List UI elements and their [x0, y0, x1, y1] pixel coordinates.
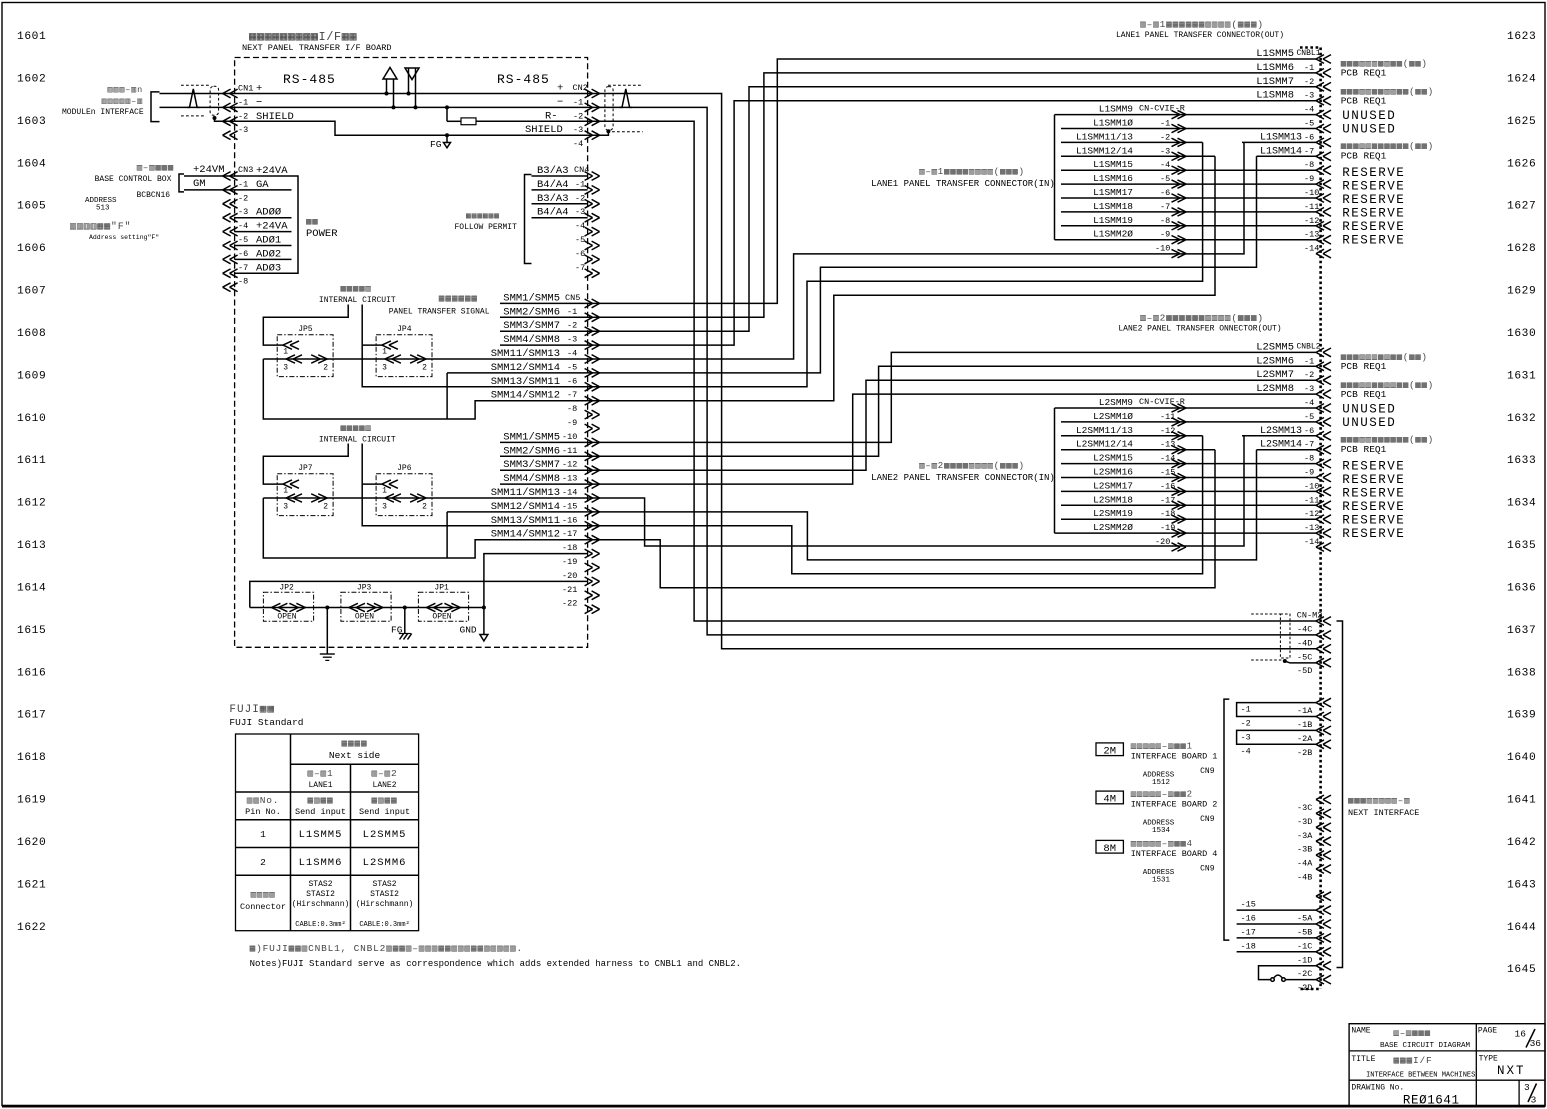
svg-text:RS-485: RS-485 — [497, 72, 550, 87]
svg-text:▦▦▦I/F: ▦▦▦I/F — [1394, 1055, 1433, 1066]
svg-text:-9: -9 — [1304, 468, 1314, 478]
svg-text:SMM3/SMM7: SMM3/SMM7 — [503, 320, 560, 332]
svg-text:2: 2 — [260, 857, 266, 868]
svg-text:SMM12/SMM14: SMM12/SMM14 — [491, 501, 560, 513]
svg-text:LANE2 PANEL TRANSFER ONNECTOR(: LANE2 PANEL TRANSFER ONNECTOR(OUT) — [1118, 325, 1281, 334]
svg-text:▦▦: ▦▦ — [306, 217, 318, 227]
svg-text:Connector: Connector — [240, 902, 286, 912]
svg-text:▦▦▦▦▦▦: ▦▦▦▦▦▦ — [439, 293, 478, 304]
svg-text:FUJI▦▦: FUJI▦▦ — [229, 704, 275, 716]
svg-text:▥▥▥▥▥–▥: ▥▥▥▥▥–▥ — [102, 97, 143, 107]
node after JP3 — [403, 606, 407, 610]
svg-text:L1SMM1Ø: L1SMM1Ø — [1093, 118, 1133, 129]
svg-text:-8: -8 — [238, 277, 248, 287]
wire CN2- to CN-M2 — [588, 107, 1316, 635]
svg-text:▦▦▦▥▥▥▥▥–▥: ▦▦▦▥▥▥▥▥–▥ — [1348, 796, 1410, 806]
pulse symbol — [620, 89, 633, 108]
svg-text:1614: 1614 — [17, 582, 46, 594]
svg-text:-2: -2 — [1304, 77, 1314, 87]
svg-text:PCB REQ1: PCB REQ1 — [1341, 444, 1387, 455]
svg-text:-7: -7 — [567, 390, 577, 400]
svg-text:LANE1 PANEL TRANSFER CONNECTOR: LANE1 PANEL TRANSFER CONNECTOR(OUT) — [1116, 31, 1284, 40]
svg-text:2: 2 — [422, 503, 427, 512]
svg-text:L1SMM14: L1SMM14 — [1260, 146, 1302, 157]
svg-text:-19: -19 — [1160, 523, 1175, 533]
svg-text:-18: -18 — [1241, 941, 1256, 951]
svg-text:-14: -14 — [1304, 244, 1319, 254]
svg-text:▥–▥2▦▦▦▦▥▥▥▥(▦▦▦): ▥–▥2▦▦▦▦▥▥▥▥(▦▦▦) — [919, 461, 1025, 471]
svg-text:1626: 1626 — [1507, 158, 1536, 170]
svg-text:CN3: CN3 — [238, 165, 253, 175]
svg-text:RESERVE: RESERVE — [1342, 527, 1405, 541]
svg-text:+: + — [557, 83, 563, 95]
svg-text:L2SMM19: L2SMM19 — [1093, 508, 1133, 519]
connector CNBL2 pins — [1316, 348, 1324, 357]
svg-text:L1SMM18: L1SMM18 — [1093, 201, 1133, 212]
svg-text:1602: 1602 — [17, 73, 46, 85]
connector CN3 — [223, 172, 231, 181]
svg-text:-2A: -2A — [1297, 734, 1313, 744]
svg-text:-2: -2 — [1304, 370, 1314, 380]
wire — [1061, 128, 1316, 130]
svg-text:▥▥▥▥▥–▥▦▦1: ▥▥▥▥▥–▥▦▦1 — [1131, 741, 1193, 751]
svg-text:Send input: Send input — [295, 807, 346, 817]
svg-text:-16: -16 — [1160, 481, 1175, 491]
svg-text:RESERVE: RESERVE — [1342, 486, 1405, 500]
svg-text:NEXT INTERFACE: NEXT INTERFACE — [1348, 808, 1419, 818]
svg-text:CN9: CN9 — [1200, 815, 1215, 824]
machine boundary dotted line — [1319, 48, 1322, 990]
svg-text:L1SMM5: L1SMM5 — [299, 829, 343, 841]
svg-text:RESERVE: RESERVE — [1342, 473, 1405, 487]
svg-text:▥–▥1▦▦▦▦▥▥▥▥(▦▦▦): ▥–▥1▦▦▦▦▥▥▥▥(▦▦▦) — [919, 167, 1025, 177]
wire CN2+ to CN-M2 — [588, 94, 1316, 649]
svg-text:1617: 1617 — [17, 710, 46, 722]
svg-text:8M: 8M — [1103, 843, 1116, 855]
crossover routing rows14-17 to lane2 (U-under) — [588, 436, 1244, 546]
svg-text:CN2: CN2 — [573, 83, 588, 93]
svg-text:INTERFACE BOARD 4: INTERFACE BOARD 4 — [1131, 849, 1218, 859]
svg-text:-1: -1 — [238, 179, 248, 189]
svg-text:ADØØ: ADØØ — [256, 207, 281, 219]
svg-text:1: 1 — [260, 829, 266, 840]
svg-text:-2: -2 — [1160, 132, 1170, 142]
wire row5 SMM12/SMM14 — [447, 372, 587, 374]
svg-text:-8: -8 — [1304, 454, 1314, 464]
svg-text:-8: -8 — [1304, 160, 1314, 170]
svg-text:SMM12/SMM14: SMM12/SMM14 — [491, 362, 560, 374]
svg-text:-5B: -5B — [1297, 928, 1312, 938]
svg-text:1607: 1607 — [17, 286, 46, 298]
svg-text:SMM14/SMM12: SMM14/SMM12 — [491, 529, 560, 541]
svg-text:-6: -6 — [238, 249, 248, 259]
wire + rail — [235, 93, 588, 95]
riser to CN5 -20 — [250, 581, 588, 607]
svg-text:1637: 1637 — [1507, 625, 1536, 637]
svg-text:▦▥▦▦: ▦▥▦▦ — [372, 795, 398, 806]
svg-text:L2SMM8: L2SMM8 — [1256, 383, 1294, 395]
svg-text:PCB REQ1: PCB REQ1 — [1341, 96, 1387, 107]
svg-text:2M: 2M — [1103, 745, 1116, 757]
svg-text:SMM11/SMM13: SMM11/SMM13 — [491, 487, 560, 499]
svg-text:SMM13/SMM11: SMM13/SMM11 — [491, 376, 560, 388]
CN5 stub wires rows 10-13 — [500, 441, 588, 443]
svg-text:1: 1 — [283, 487, 288, 496]
wire internal to JP4 pin1 / row6 — [362, 305, 587, 387]
svg-text:GM: GM — [193, 178, 206, 190]
svg-text:L2SMM9: L2SMM9 — [1099, 397, 1134, 408]
wire — [1061, 421, 1316, 423]
svg-text:INTERFACE BOARD 2: INTERFACE BOARD 2 — [1131, 800, 1218, 810]
svg-text:-5: -5 — [575, 235, 585, 245]
svg-text:-10: -10 — [1304, 188, 1319, 198]
svg-text:-9: -9 — [567, 418, 577, 428]
svg-text:L2SMM11/13: L2SMM11/13 — [1076, 425, 1133, 436]
svg-text:1642: 1642 — [1507, 837, 1536, 849]
crossover wires L2SMM13 L2SMM14 — [1242, 435, 1316, 437]
svg-text:-14: -14 — [1160, 454, 1175, 464]
svg-text:1605: 1605 — [17, 201, 46, 213]
svg-text:L1SMM11/13: L1SMM11/13 — [1076, 131, 1133, 142]
terminating resistor R — [445, 105, 449, 109]
svg-text:-2: -2 — [573, 111, 583, 121]
svg-text:ADØ1: ADØ1 — [256, 235, 281, 247]
svg-text:LANE2: LANE2 — [373, 781, 397, 790]
svg-text:RESERVE: RESERVE — [1342, 513, 1405, 527]
svg-text:-8: -8 — [1160, 216, 1170, 226]
svg-text:1620: 1620 — [17, 837, 46, 849]
svg-text:-5: -5 — [1160, 174, 1170, 184]
svg-text:CNBL2: CNBL2 — [1297, 342, 1321, 351]
svg-text:+24VM: +24VM — [193, 164, 225, 176]
svg-text:FOLLOW PERMIT: FOLLOW PERMIT — [455, 223, 518, 232]
svg-text:Next side: Next side — [329, 750, 381, 761]
svg-text:3: 3 — [1531, 1095, 1537, 1106]
svg-text:TITLE: TITLE — [1351, 1055, 1375, 1064]
svg-text:RESERVE: RESERVE — [1342, 459, 1405, 473]
shorting loop -1/-2 — [1237, 703, 1316, 717]
svg-text:TYPE: TYPE — [1479, 1055, 1498, 1064]
svg-text:-14: -14 — [1304, 537, 1319, 547]
svg-text:NEXT PANEL TRANSFER I/F BOARD: NEXT PANEL TRANSFER I/F BOARD — [242, 43, 392, 53]
svg-text:-4: -4 — [1160, 160, 1170, 170]
connector CN2 — [592, 89, 600, 98]
svg-text:NAME: NAME — [1351, 1027, 1370, 1036]
svg-text:-13: -13 — [562, 474, 577, 484]
svg-text:CN-CVIF-R: CN-CVIF-R — [1139, 104, 1185, 114]
wire — [1061, 477, 1316, 479]
svg-text:RS-485: RS-485 — [283, 72, 336, 87]
wire — [1061, 183, 1316, 185]
CN9 stub bracket — [1224, 699, 1229, 940]
svg-text:-3: -3 — [1241, 732, 1251, 742]
svg-text:-11: -11 — [1304, 495, 1319, 505]
svg-text:-2: -2 — [567, 321, 577, 331]
svg-text:-2C: -2C — [1297, 969, 1312, 979]
svg-text:-5: -5 — [567, 362, 577, 372]
bus CN5 rows10-13 to CNBL2 — [588, 352, 1316, 442]
svg-text:▦▦▦▦▥: ▦▦▦▦▥ — [340, 284, 371, 294]
svg-text:B4/A4: B4/A4 — [537, 179, 569, 191]
TVS diode D2 (triangle down) — [405, 68, 419, 80]
svg-text:FUJI Standard: FUJI Standard — [229, 717, 303, 728]
svg-text:-10: -10 — [562, 432, 577, 442]
next interface right bracket — [1337, 621, 1343, 968]
svg-text:B4/A4: B4/A4 — [537, 207, 569, 219]
svg-text:L1SMM2Ø: L1SMM2Ø — [1093, 229, 1133, 240]
svg-text:L1SMM16: L1SMM16 — [1093, 173, 1133, 184]
svg-text:1613: 1613 — [17, 540, 46, 552]
svg-text:L1SMM15: L1SMM15 — [1093, 159, 1133, 170]
svg-text:UNUSED: UNUSED — [1342, 402, 1396, 416]
svg-text:1634: 1634 — [1507, 498, 1536, 510]
svg-text:JP6: JP6 — [397, 464, 412, 473]
svg-text:▥–▥▦▦▦: ▥–▥▦▦▦ — [1394, 1029, 1431, 1039]
svg-text:-1A: -1A — [1297, 706, 1313, 716]
svg-text:SMM3/SMM7: SMM3/SMM7 — [503, 459, 560, 471]
svg-text:-3: -3 — [1304, 91, 1314, 101]
svg-text:SHIELD: SHIELD — [525, 124, 563, 136]
svg-text:▥–▥2▦▦▦▦▦▦▥▥▥▥(▦▦▦): ▥–▥2▦▦▦▦▦▦▥▥▥▥(▦▦▦) — [1140, 313, 1264, 324]
svg-text:CN9: CN9 — [1200, 864, 1215, 873]
CN2 mating cable pigtail (dashed capsule) — [605, 87, 613, 131]
svg-text:SMM1/SMM5: SMM1/SMM5 — [503, 292, 560, 304]
svg-text:-4: -4 — [238, 221, 248, 231]
svg-text:-7: -7 — [1160, 202, 1170, 212]
svg-text:▦)FUJI▦▦▥CNBL1, CNBL2▥▦▦▥–▥▥▥▦: ▦)FUJI▦▦▥CNBL1, CNBL2▥▦▦▥–▥▥▥▦▦▥▥▥▦▦▥▥▥▥… — [250, 943, 523, 954]
svg-text:-3: -3 — [238, 207, 248, 217]
svg-text:1621: 1621 — [17, 879, 46, 891]
svg-text:-4B: -4B — [1297, 873, 1312, 883]
svg-text:JP2: JP2 — [279, 584, 294, 593]
svg-text:3: 3 — [1524, 1082, 1530, 1093]
wire — [1061, 169, 1316, 171]
svg-text:ADØ3: ADØ3 — [256, 262, 281, 274]
wire internal to JP6 pin1 / row16 — [362, 444, 587, 526]
svg-text:UNUSED: UNUSED — [1342, 123, 1396, 137]
svg-text:SMM4/SMM8: SMM4/SMM8 — [503, 334, 560, 346]
svg-text:RESERVE: RESERVE — [1342, 193, 1405, 207]
svg-text:Notes)FUJI Standard serve as c: Notes)FUJI Standard serve as corresponde… — [250, 959, 741, 969]
wire — [1061, 197, 1316, 199]
FG chassis ground — [404, 608, 406, 634]
node after JP1 — [482, 606, 486, 610]
svg-text:-2D: -2D — [1297, 983, 1312, 993]
svg-text:PAGE: PAGE — [1478, 1027, 1497, 1036]
crossover wires L1SMM13 L1SMM14 — [1242, 141, 1316, 143]
svg-text:▥–▥1: ▥–▥1 — [307, 768, 333, 779]
svg-text:1: 1 — [382, 487, 387, 496]
svg-text:L2SMM7: L2SMM7 — [1256, 369, 1294, 381]
svg-text:1606: 1606 — [17, 243, 46, 255]
svg-text:1629: 1629 — [1507, 286, 1536, 298]
svg-text:-3: -3 — [573, 125, 583, 135]
svg-text:1603: 1603 — [17, 116, 46, 128]
svg-text:SMM14/SMM12: SMM14/SMM12 — [491, 390, 560, 402]
svg-text:-3: -3 — [1160, 146, 1170, 156]
svg-text:▥▥▥▥▥–▥▦▦2: ▥▥▥▥▥–▥▦▦2 — [1131, 790, 1193, 800]
svg-text:FG: FG — [430, 139, 442, 150]
power bracket — [292, 176, 299, 273]
svg-text:L1SMM5: L1SMM5 — [1256, 48, 1294, 60]
wire — [1061, 532, 1316, 534]
svg-text:STASI2: STASI2 — [306, 890, 335, 899]
svg-text:1643: 1643 — [1507, 879, 1536, 891]
wire branch to row7 SMM14/SMM12 — [263, 359, 587, 419]
svg-text:-3B: -3B — [1297, 845, 1312, 855]
svg-text:1624: 1624 — [1507, 73, 1536, 85]
svg-text:JP5: JP5 — [298, 325, 313, 334]
svg-text:-9: -9 — [1304, 174, 1314, 184]
svg-text:PCB REQ1: PCB REQ1 — [1341, 389, 1387, 400]
svg-text:JP4: JP4 — [397, 325, 412, 334]
svg-text:CNBL1: CNBL1 — [1297, 49, 1321, 58]
link loop -2C/-2D — [1259, 966, 1317, 980]
svg-text:-1: -1 — [1304, 63, 1314, 73]
svg-text:-1B: -1B — [1297, 720, 1312, 730]
wire SMM11/SMM13 row through JP5 JP4 — [263, 358, 587, 360]
svg-text:-4: -4 — [567, 349, 577, 359]
svg-text:Send input: Send input — [359, 807, 410, 817]
svg-text:RESERVE: RESERVE — [1342, 180, 1405, 194]
svg-text:OPEN: OPEN — [277, 613, 296, 622]
svg-text:-5: -5 — [1304, 119, 1314, 129]
bus CN5 rows0-3 to CNBL1 — [588, 59, 1316, 303]
svg-text:L1SMM6: L1SMM6 — [1256, 62, 1294, 74]
module bracket — [151, 92, 160, 122]
svg-text:-6: -6 — [1304, 426, 1314, 436]
svg-text:PCB REQ1: PCB REQ1 — [1341, 151, 1387, 162]
svg-text:1609: 1609 — [17, 370, 46, 382]
svg-text:-16: -16 — [562, 515, 577, 525]
svg-text:CABLE:0.3mm²: CABLE:0.3mm² — [295, 921, 345, 929]
svg-text:1630: 1630 — [1507, 328, 1536, 340]
svg-text:L2SMM18: L2SMM18 — [1093, 494, 1133, 505]
svg-text:-2: -2 — [575, 193, 585, 203]
svg-text:▦▦▦▦▦▦: ▦▦▦▦▦▦ — [466, 212, 500, 221]
svg-text:-4: -4 — [1304, 398, 1314, 408]
svg-text:1531: 1531 — [1152, 876, 1171, 884]
svg-text:-17: -17 — [562, 529, 577, 539]
svg-text:-5C: -5C — [1297, 652, 1312, 662]
svg-text:SMM1/SMM5: SMM1/SMM5 — [503, 431, 560, 443]
svg-text:-16: -16 — [1241, 914, 1256, 924]
svg-text:-13: -13 — [1160, 440, 1175, 450]
svg-text:BASE CONTROL BOX: BASE CONTROL BOX — [95, 175, 172, 184]
svg-text:513: 513 — [96, 205, 110, 213]
svg-text:L2SMM16: L2SMM16 — [1093, 467, 1133, 478]
svg-text:L2SMM14: L2SMM14 — [1260, 440, 1302, 451]
svg-text:1618: 1618 — [17, 752, 46, 764]
svg-text:1604: 1604 — [17, 158, 46, 170]
svg-text:L2SMM6: L2SMM6 — [1256, 355, 1294, 367]
svg-text:-7: -7 — [238, 263, 248, 273]
svg-text:-7: -7 — [1304, 146, 1314, 156]
svg-text:-5: -5 — [238, 235, 248, 245]
svg-text:L2SMM5: L2SMM5 — [1256, 341, 1294, 353]
svg-text:-21: -21 — [562, 585, 577, 595]
title block — [1349, 1024, 1545, 1106]
svg-text:L2SMM12/14: L2SMM12/14 — [1076, 439, 1133, 450]
svg-text:-15: -15 — [1241, 900, 1256, 910]
shorting loop -3/-4 — [1237, 730, 1316, 744]
CN-M2 cable pigtail — [1280, 614, 1290, 658]
svg-text:-19: -19 — [562, 557, 577, 567]
svg-text:CN9: CN9 — [1200, 767, 1215, 776]
svg-text:1636: 1636 — [1507, 582, 1536, 594]
wire — [1061, 407, 1316, 409]
svg-text:-1D: -1D — [1297, 955, 1312, 965]
svg-text:-11: -11 — [1160, 412, 1175, 422]
svg-text:-18: -18 — [1160, 509, 1175, 519]
svg-text:L2SMM17: L2SMM17 — [1093, 480, 1133, 491]
svg-text:1623: 1623 — [1507, 31, 1536, 43]
svg-text:3: 3 — [382, 503, 387, 512]
svg-text:-10: -10 — [1155, 244, 1170, 254]
FG ground stub — [445, 133, 449, 137]
svg-text:-4C: -4C — [1297, 625, 1312, 635]
wire — [1061, 504, 1316, 506]
wire CN2 R- to CN-M2 — [588, 121, 1316, 621]
wire — [1061, 518, 1316, 520]
svg-text:PCB REQ1: PCB REQ1 — [1341, 68, 1387, 79]
svg-text:3: 3 — [283, 364, 288, 373]
svg-text:▥–▥▦▦▦: ▥–▥▦▦▦ — [137, 163, 174, 173]
svg-text:1645: 1645 — [1507, 964, 1536, 976]
pulse symbol on wire — [187, 89, 200, 108]
svg-text:L1SMM12/14: L1SMM12/14 — [1076, 145, 1133, 156]
svg-text:ADØ2: ADØ2 — [256, 248, 281, 260]
svg-text:-5A: -5A — [1297, 914, 1313, 924]
CN3 internal wires — [235, 175, 292, 177]
TVS diode D1 (triangle up) — [383, 68, 397, 80]
wire — [1061, 114, 1316, 116]
svg-text:▥–▥1▦▦▦▦▦▦▥▥▥▥(▦▦▦): ▥–▥1▦▦▦▦▦▦▥▥▥▥(▦▦▦) — [1140, 19, 1264, 30]
svg-text:CN1: CN1 — [238, 84, 253, 94]
wire internal to JP5 pin1 — [263, 305, 348, 346]
svg-text:CN-CVIF-R: CN-CVIF-R — [1139, 397, 1185, 407]
connector CNBL1 pins — [1316, 55, 1324, 64]
svg-text:-2: -2 — [1241, 719, 1251, 729]
svg-text:-17: -17 — [1160, 495, 1175, 505]
stub wires -15..-18 — [1237, 909, 1316, 911]
svg-text:-1: -1 — [1304, 356, 1314, 366]
svg-text:SMM11/SMM13: SMM11/SMM13 — [491, 348, 560, 360]
svg-text:1625: 1625 — [1507, 116, 1536, 128]
svg-text:1631: 1631 — [1507, 370, 1536, 382]
svg-text:L1SMM17: L1SMM17 — [1093, 187, 1133, 198]
svg-text:-3: -3 — [567, 335, 577, 345]
svg-text:NXT: NXT — [1497, 1064, 1526, 1078]
connector CN5 pins — [592, 299, 600, 308]
svg-text:-2: -2 — [238, 111, 248, 121]
svg-text:UNUSED: UNUSED — [1342, 416, 1396, 430]
svg-text:-18: -18 — [562, 543, 577, 553]
interface boards 2M 4M 8M — [1096, 743, 1123, 756]
svg-text:(Hirschmann): (Hirschmann) — [292, 900, 350, 909]
svg-text:-3: -3 — [575, 207, 585, 217]
connector CN4 — [532, 175, 588, 177]
wire row15 SMM12/SMM14 — [447, 511, 587, 513]
svg-text:REØ1641: REØ1641 — [1403, 1094, 1460, 1108]
wire — [1061, 435, 1203, 437]
svg-text:-5D: -5D — [1297, 666, 1312, 676]
svg-text:LANE2 PANEL TRANSFER CONNECTOR: LANE2 PANEL TRANSFER CONNECTOR(IN) — [871, 473, 1055, 483]
wire branch to row17 SMM14/SMM12 — [263, 498, 587, 558]
CN5 stub wires rows 0-3 — [500, 302, 588, 304]
svg-text:-6: -6 — [1304, 132, 1314, 142]
svg-text:-4D: -4D — [1297, 638, 1312, 648]
